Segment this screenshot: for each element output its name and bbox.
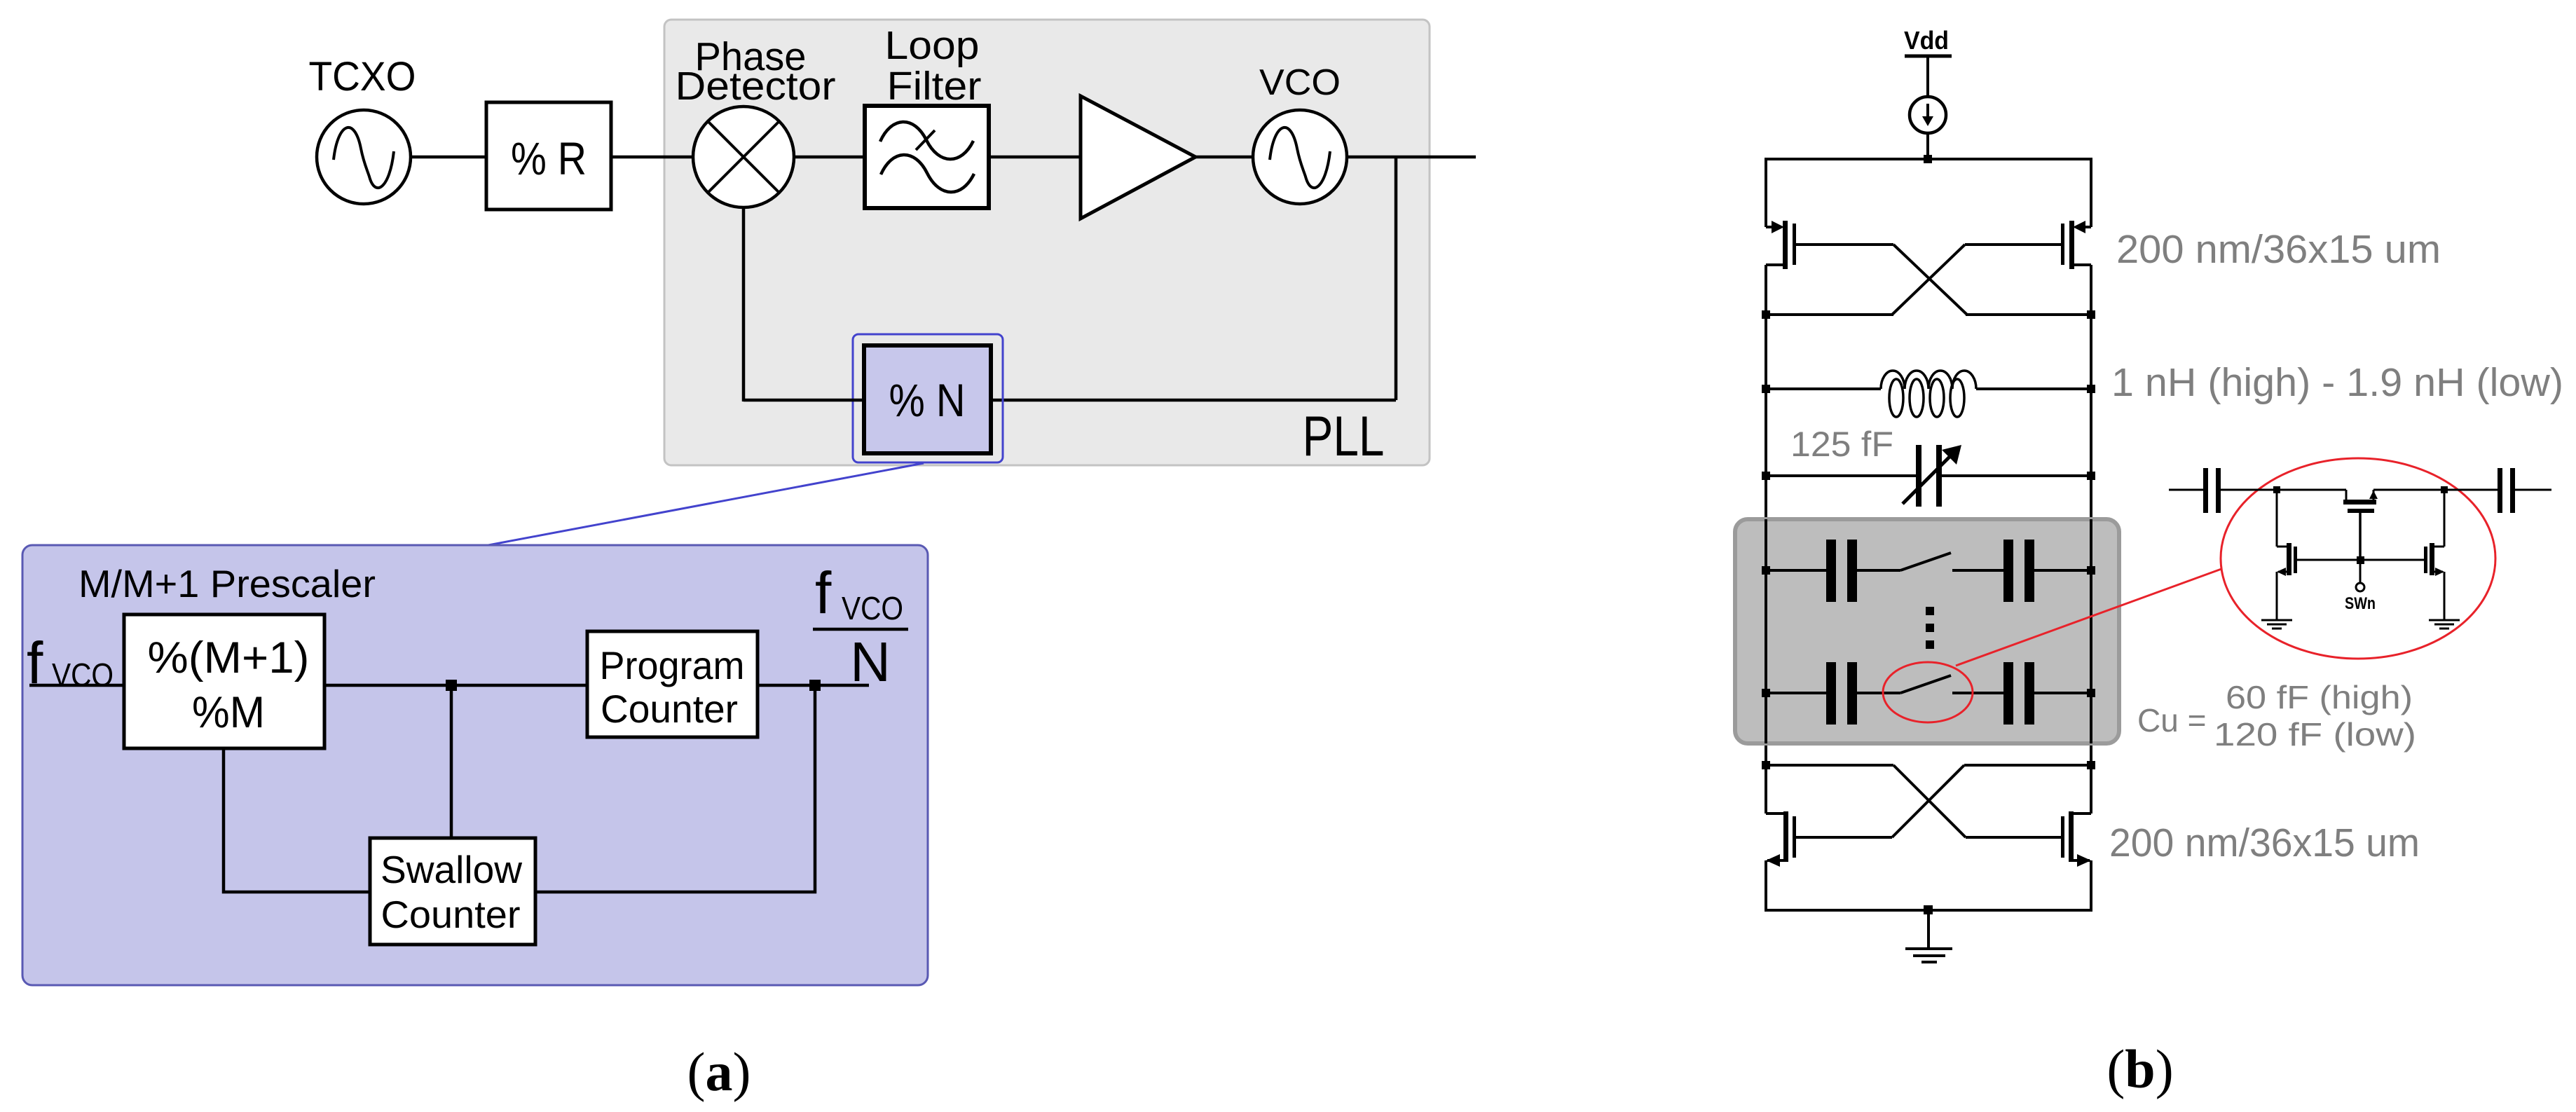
switch SW1	[1900, 553, 1951, 570]
wire switch to cap	[1952, 569, 2003, 572]
svg-text:VCO: VCO	[842, 590, 903, 626]
wire phase detector down	[742, 207, 746, 401]
red callout line	[1956, 569, 2221, 666]
wire TCXO to %R	[411, 156, 486, 159]
svg-text:% N: % N	[889, 374, 966, 426]
junction node	[446, 680, 457, 691]
blue highlight frame around %N	[853, 334, 1003, 462]
svg-text:200 nm/36x15 um: 200 nm/36x15 um	[2109, 821, 2420, 865]
detail gate bus	[2297, 559, 2424, 561]
M/M+1 prescaler background box	[22, 545, 928, 985]
svg-text:Swallow: Swallow	[381, 848, 522, 891]
Vdd supply label	[1904, 26, 1952, 97]
cap row 2: wire left	[1766, 692, 1826, 694]
capacitor C4	[1826, 662, 1857, 725]
PLL label	[1303, 405, 1385, 468]
svg-text:PLL: PLL	[1303, 405, 1385, 468]
right rail mid	[2090, 315, 2092, 765]
svg-text:TCXO: TCXO	[309, 54, 416, 99]
PLL block background box	[664, 20, 1430, 465]
detail transistor M7 NMOS right	[2424, 490, 2444, 619]
NMOS cross-coupling wires	[1766, 765, 2091, 837]
svg-text:Filter: Filter	[887, 64, 982, 109]
varactor value label 125 fF	[1790, 425, 1893, 464]
transistor M4 NMOS right	[2061, 765, 2091, 912]
Phase Detector label	[676, 34, 836, 109]
svg-text:N: N	[850, 631, 891, 693]
detail junction nodes	[2273, 486, 2448, 493]
inductor L1	[1766, 371, 2091, 417]
wire prescaler to program counter	[324, 684, 587, 687]
wire to switch	[1857, 569, 1900, 572]
feedback wire vertical from output	[1395, 157, 1398, 400]
svg-text:1 nH (high) - 1.9 nH (low): 1 nH (high) - 1.9 nH (low)	[2111, 360, 2563, 405]
svg-text:Counter: Counter	[601, 687, 738, 731]
detail transistor M5 PMOS switch	[2343, 490, 2378, 560]
VCO label	[1259, 62, 1341, 103]
left rail mid	[1765, 315, 1767, 765]
svg-text:%(M+1): %(M+1)	[148, 633, 310, 682]
svg-text:Program: Program	[600, 643, 745, 687]
varactor C1	[1766, 445, 2091, 507]
transistor M2 PMOS right	[2061, 221, 2091, 316]
wire %R to phase detector	[611, 156, 694, 159]
wire %N to phase detector branch	[744, 399, 864, 402]
feedback wire horizontal to divider N	[991, 399, 1396, 402]
wire prescaler box down and to swallow counter	[224, 748, 370, 892]
VCO oscillator circle	[1253, 110, 1347, 204]
detail wire	[2221, 489, 2346, 491]
wire fVCO input	[29, 684, 124, 687]
svg-text:120 fF (low): 120 fF (low)	[2214, 716, 2416, 753]
junction nodes varactor row	[1762, 472, 2095, 480]
junction nodes drain line	[1762, 310, 2095, 319]
divider %N box	[864, 345, 991, 453]
caption (b)	[2106, 1038, 2173, 1099]
switched capacitor bank box	[1735, 519, 2119, 743]
amplifier triangle	[1081, 96, 1195, 219]
detail ground left	[2261, 620, 2292, 629]
svg-text:Vdd: Vdd	[1904, 26, 1949, 55]
svg-text:(b): (b)	[2106, 1038, 2173, 1099]
left rail inside cap bank	[1765, 519, 1767, 743]
bottom rail	[1766, 909, 2091, 912]
top supply rail	[1766, 158, 2091, 160]
svg-text:Loop: Loop	[885, 23, 980, 68]
detail wire right of switch transistor	[2373, 489, 2498, 491]
Cu value label	[2137, 679, 2416, 753]
PMOS cross-coupling wires	[1766, 245, 2091, 315]
transistor M1 PMOS left	[1766, 221, 1796, 316]
junction nodes inductor row	[1762, 385, 2095, 393]
loop filter box	[865, 106, 989, 208]
svg-text:% R: % R	[511, 132, 587, 184]
wire to switch	[1857, 692, 1900, 694]
inductor value label	[2111, 360, 2563, 405]
junction nodes cap row 2	[1762, 689, 2095, 697]
detail transistor M6 NMOS left	[2277, 490, 2297, 619]
vertical ellipsis dots	[1926, 607, 1934, 649]
M/M+1 Prescaler label	[78, 562, 376, 605]
junction node bottom rail	[1924, 905, 1933, 914]
big red zoom ellipse	[2221, 458, 2495, 659]
junction node top rail	[1924, 155, 1932, 163]
capacitor C3	[2003, 540, 2034, 602]
current source I1	[1910, 97, 1946, 133]
wire switch to cap	[1952, 692, 2003, 694]
junction nodes bottom pair	[1762, 761, 2095, 769]
detail capacitor left	[2203, 468, 2221, 513]
red zoom ellipse on switch	[1883, 662, 1973, 722]
detail ground right	[2429, 620, 2460, 629]
svg-text:f: f	[815, 560, 832, 626]
transistor size label top	[2116, 227, 2441, 272]
svg-text:125 fF: 125 fF	[1790, 425, 1893, 464]
right rail upper	[2090, 158, 2092, 227]
svg-text:SWn: SWn	[2345, 594, 2376, 613]
capacitor C5	[2003, 662, 2034, 725]
wire swallow counter to output junction	[535, 685, 815, 892]
detail capacitor right	[2498, 468, 2515, 513]
detail node junction	[2357, 556, 2364, 564]
wire to right rail	[2034, 569, 2091, 572]
svg-text:%M: %M	[192, 688, 265, 737]
divider %R box	[486, 102, 611, 210]
wire phase detector to loop filter	[794, 156, 865, 159]
prescaler divider box %(M+1)/%M	[124, 615, 324, 748]
svg-text:VCO: VCO	[1259, 62, 1341, 103]
Loop Filter label	[885, 23, 982, 109]
junction nodes cap row 1	[1762, 566, 2095, 575]
switch SWn	[1900, 675, 1951, 693]
wire to right rail	[2034, 692, 2091, 694]
ground stem	[1927, 910, 1930, 948]
svg-text:200 nm/36x15 um: 200 nm/36x15 um	[2116, 227, 2441, 272]
Program Counter box	[587, 631, 758, 737]
right rail inside cap bank	[2090, 519, 2092, 743]
svg-text:VCO: VCO	[52, 657, 114, 693]
node fVCO input label	[27, 630, 114, 696]
wire VCO to output	[1347, 156, 1476, 159]
capacitor C2	[1826, 540, 1857, 602]
wire loop filter to amplifier	[989, 156, 1081, 159]
svg-text:Counter: Counter	[381, 893, 521, 936]
wire junction down to swallow counter	[450, 685, 453, 838]
transistor size label bottom	[2109, 821, 2420, 865]
junction node	[809, 680, 821, 691]
node fVCO/N output label	[813, 560, 908, 693]
svg-text:(a): (a)	[687, 1041, 751, 1102]
TCXO oscillator circle	[317, 110, 411, 204]
TCXO label	[309, 54, 416, 99]
Swallow Counter box	[370, 838, 535, 945]
detail SWn terminal	[2345, 564, 2376, 613]
wire current source to rail	[1926, 133, 1929, 159]
transistor M3 NMOS left	[1766, 765, 1796, 912]
detail: wire left	[2169, 489, 2203, 491]
svg-text:Cu =: Cu =	[2137, 702, 2206, 739]
ground symbol	[1905, 949, 1952, 962]
wire amplifier to VCO	[1195, 156, 1253, 159]
phase detector mixer circle	[693, 107, 794, 207]
cap row 1: wire left	[1766, 569, 1826, 572]
detail wire right end	[2515, 489, 2551, 491]
svg-text:Detector: Detector	[676, 64, 836, 109]
blue callout line	[455, 463, 924, 551]
left rail upper	[1765, 158, 1767, 227]
wire program counter to output	[758, 684, 869, 687]
caption (a)	[687, 1041, 751, 1102]
svg-text:60 fF (high): 60 fF (high)	[2226, 679, 2413, 715]
svg-text:M/M+1 Prescaler: M/M+1 Prescaler	[78, 562, 376, 605]
